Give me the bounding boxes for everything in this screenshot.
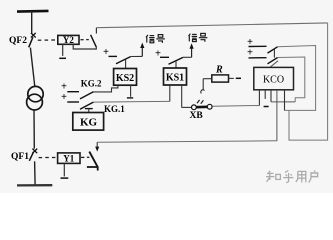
svg-text:+: + <box>61 81 67 92</box>
svg-text:KG.1: KG.1 <box>104 104 125 114</box>
svg-text:Y1: Y1 <box>63 154 74 164</box>
svg-text:XB: XB <box>190 111 204 121</box>
svg-text:Y2: Y2 <box>63 35 74 45</box>
svg-text:QF2: QF2 <box>9 36 27 46</box>
svg-text:KG.2: KG.2 <box>81 79 102 89</box>
svg-text:+: + <box>103 47 109 58</box>
svg-text:KG: KG <box>80 117 98 129</box>
svg-text:R: R <box>215 65 223 76</box>
svg-text:+: + <box>61 92 67 103</box>
svg-text:KS2: KS2 <box>116 73 134 84</box>
svg-text:+: + <box>247 47 253 58</box>
svg-text:KS1: KS1 <box>166 72 184 83</box>
svg-text:QF1: QF1 <box>11 152 29 162</box>
svg-text:KCO: KCO <box>263 74 284 85</box>
